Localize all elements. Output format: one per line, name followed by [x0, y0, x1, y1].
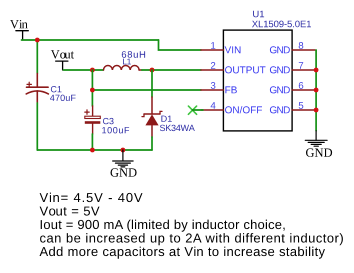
junction pin 6: [314, 88, 319, 93]
wire Vin vertical to C1: [36, 40, 38, 74]
pin 6 number: [299, 82, 304, 89]
wire Vin top horizontal: [22, 39, 159, 41]
note line 5: [40, 247, 326, 259]
pin 4 ON/OFF lead: [201, 109, 223, 111]
wire diode bottom: [151, 137, 153, 150]
pin 5 name GND: [270, 106, 290, 113]
label C3 ref: [103, 118, 114, 124]
pin 8 name GND: [270, 46, 290, 53]
pin 1 name VIN: [225, 46, 241, 53]
pin 4 name ON/OFF: [225, 106, 262, 113]
wire inductor to pin 2: [142, 69, 201, 71]
label C1 value 470uF: [50, 95, 76, 101]
label U1 ref: [253, 11, 264, 18]
label C3 value 100uF: [102, 127, 129, 133]
pin 2 OUTPUT lead: [201, 69, 223, 71]
wire C3 bottom: [91, 134, 93, 150]
inductor L1: [104, 66, 142, 70]
junction switch node: [150, 68, 155, 73]
node GND label right: [306, 148, 332, 156]
pin 8 number: [299, 42, 304, 49]
label C1 ref: [51, 86, 62, 92]
pin 3 name FB: [225, 86, 237, 93]
pin 5 number: [299, 102, 304, 109]
pin 5 GND lead: [292, 109, 315, 111]
node Vout label leader: [56, 61, 68, 70]
wire GND bus vertical: [315, 50, 317, 131]
junction Vin node: [35, 38, 40, 43]
label L1 value 68uH: [122, 51, 145, 58]
capacitor C3: [85, 106, 101, 134]
pin 1 VIN lead: [201, 49, 223, 51]
wire diode top: [151, 70, 153, 97]
pin 7 GND lead: [292, 69, 315, 71]
wire Vout down to C3: [91, 70, 93, 106]
junction FB tap: [90, 88, 95, 93]
pin 3 number: [211, 82, 216, 89]
node Vin label leader: [16, 31, 28, 40]
junction pin 5: [314, 108, 319, 113]
wire pin 4 stub: [193, 109, 204, 111]
label U1 value XL1509-5.0E1: [252, 21, 311, 28]
diode D1 (Schottky): [142, 97, 162, 137]
pin 1 number: [211, 42, 215, 49]
wire step down to pin 1: [159, 40, 202, 50]
note line 1: [40, 193, 143, 203]
no-connect X on pin 4: [188, 106, 196, 114]
pin 2 number: [211, 62, 215, 69]
wire bottom ground rail: [37, 149, 152, 151]
pin 3 FB lead: [201, 89, 223, 91]
label D1 value SK34WA: [160, 125, 195, 131]
junction ground tap: [121, 148, 126, 153]
node GND label bottom: [111, 168, 137, 176]
pin 6 name GND: [270, 86, 290, 93]
node Vout label text: [51, 50, 74, 58]
junction C3 to rail: [90, 148, 95, 153]
capacitor C1: [26, 74, 48, 104]
node Vin label text: [10, 20, 28, 29]
pin 7 name GND: [270, 66, 290, 73]
wire Vout to inductor: [63, 69, 103, 71]
note line 4: [40, 233, 343, 245]
pin 4 number: [211, 102, 216, 109]
wire C1 bottom: [36, 103, 38, 150]
pin 7 number: [299, 62, 303, 69]
note line 2: [40, 207, 100, 216]
junction Vout node: [90, 68, 95, 73]
pin 2 name OUTPUT: [225, 66, 265, 73]
label D1 ref: [161, 116, 171, 122]
note line 3: [41, 220, 285, 232]
pin 6 GND lead: [292, 89, 315, 91]
junction pin 7: [314, 68, 319, 73]
label L1 ref: [123, 59, 131, 65]
ground symbol bottom: [113, 150, 133, 167]
IC U1 XL1509 body: [223, 30, 292, 131]
pin 8 GND lead: [292, 49, 315, 51]
wire FB horizontal: [92, 89, 201, 91]
ground symbol right: [305, 131, 327, 146]
